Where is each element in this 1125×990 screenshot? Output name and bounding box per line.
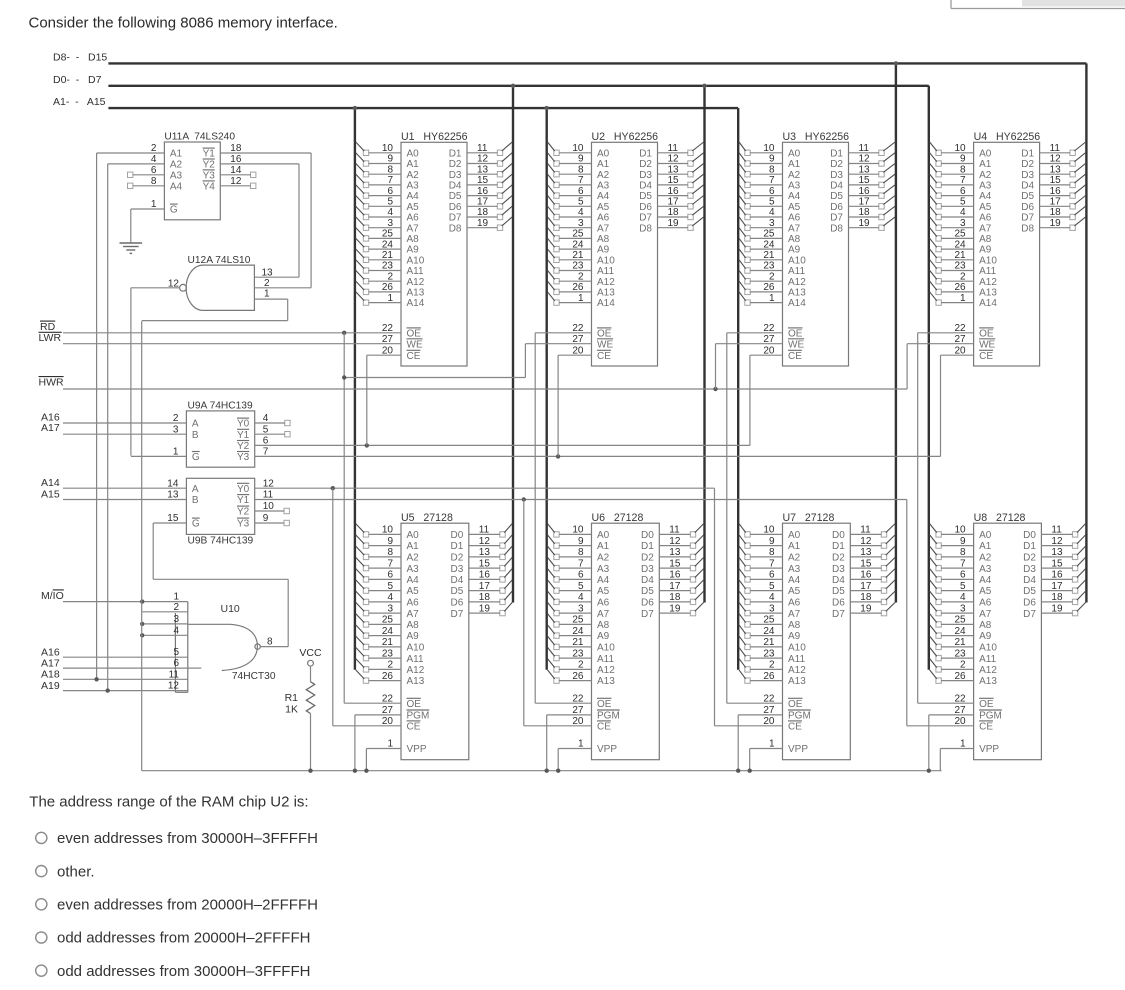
svg-text:23: 23 <box>954 261 966 272</box>
svg-text:D8: D8 <box>449 223 462 234</box>
svg-text:A: A <box>192 419 199 430</box>
svg-text:A13: A13 <box>979 676 997 687</box>
svg-text:A6: A6 <box>597 213 610 224</box>
svg-text:23: 23 <box>382 648 394 659</box>
svg-text:1: 1 <box>264 289 270 300</box>
svg-text:D3: D3 <box>1023 564 1036 575</box>
svg-text:D0- - D7: D0- - D7 <box>53 74 102 86</box>
svg-text:D4: D4 <box>641 575 654 586</box>
svg-text:19: 19 <box>1050 218 1062 229</box>
svg-text:2: 2 <box>769 660 775 671</box>
svg-text:A7: A7 <box>979 609 992 620</box>
svg-text:A12: A12 <box>788 665 806 676</box>
svg-text:26: 26 <box>763 671 775 682</box>
svg-text:D1: D1 <box>1021 148 1034 159</box>
svg-text:17: 17 <box>1050 197 1062 208</box>
svg-text:A6: A6 <box>788 598 801 609</box>
svg-text:A12: A12 <box>979 665 997 676</box>
svg-text:26: 26 <box>572 282 584 293</box>
svg-text:A7: A7 <box>788 223 801 234</box>
svg-text:16: 16 <box>669 570 681 581</box>
svg-text:A6: A6 <box>407 598 420 609</box>
svg-text:4: 4 <box>173 625 179 636</box>
svg-text:21: 21 <box>572 637 584 648</box>
svg-text:Y3: Y3 <box>237 452 250 463</box>
svg-text:A12: A12 <box>979 277 997 288</box>
svg-text:13: 13 <box>859 164 871 175</box>
svg-text:odd addresses from 30000H–3FFF: odd addresses from 30000H–3FFFFH <box>57 963 310 980</box>
svg-text:3: 3 <box>960 603 966 614</box>
svg-text:18: 18 <box>860 592 872 603</box>
svg-text:U1 HY62256: U1 HY62256 <box>401 131 468 143</box>
svg-text:13: 13 <box>1050 164 1062 175</box>
svg-text:9: 9 <box>769 154 775 165</box>
svg-text:18: 18 <box>477 207 489 218</box>
svg-text:11: 11 <box>1051 525 1062 536</box>
svg-text:A11: A11 <box>597 266 614 277</box>
svg-text:A0: A0 <box>597 148 610 159</box>
svg-text:A4: A4 <box>407 575 420 586</box>
svg-text:OE: OE <box>979 699 994 710</box>
svg-text:13: 13 <box>261 268 273 279</box>
svg-text:8: 8 <box>267 636 273 647</box>
svg-text:A4: A4 <box>170 181 183 192</box>
svg-text:D7: D7 <box>832 609 845 620</box>
svg-text:G: G <box>192 452 200 463</box>
svg-text:4: 4 <box>387 207 393 218</box>
svg-text:RD: RD <box>40 321 56 333</box>
svg-text:D3: D3 <box>639 170 652 181</box>
svg-text:18: 18 <box>669 592 681 603</box>
svg-text:15: 15 <box>668 175 680 186</box>
svg-text:D3: D3 <box>1021 170 1034 181</box>
svg-text:D7: D7 <box>830 213 843 224</box>
svg-text:23: 23 <box>954 648 966 659</box>
svg-text:24: 24 <box>763 239 775 250</box>
svg-text:U7 27128: U7 27128 <box>783 512 835 524</box>
svg-text:8: 8 <box>387 547 393 558</box>
svg-text:10: 10 <box>763 143 775 154</box>
svg-text:D1: D1 <box>830 148 843 159</box>
svg-text:25: 25 <box>763 229 775 240</box>
svg-text:18: 18 <box>479 592 491 603</box>
svg-text:other.: other. <box>57 863 95 880</box>
svg-text:A3: A3 <box>597 564 610 575</box>
svg-text:3: 3 <box>578 218 584 229</box>
svg-text:6: 6 <box>960 570 966 581</box>
svg-text:OE: OE <box>407 328 422 339</box>
svg-text:A6: A6 <box>979 598 992 609</box>
svg-text:A0: A0 <box>788 530 801 541</box>
svg-text:21: 21 <box>763 250 775 261</box>
svg-text:D0: D0 <box>1023 530 1036 541</box>
svg-text:15: 15 <box>669 558 681 569</box>
svg-text:11: 11 <box>479 525 490 536</box>
svg-text:A10: A10 <box>407 255 425 266</box>
svg-text:19: 19 <box>859 218 871 229</box>
svg-text:A14: A14 <box>788 298 806 309</box>
svg-text:D0: D0 <box>641 530 654 541</box>
svg-text:10: 10 <box>763 525 775 536</box>
svg-text:A13: A13 <box>597 676 615 687</box>
svg-text:Y2: Y2 <box>203 160 216 171</box>
svg-text:D8: D8 <box>1021 223 1034 234</box>
svg-text:CE: CE <box>788 721 802 732</box>
svg-text:A7: A7 <box>597 223 610 234</box>
svg-text:A3: A3 <box>788 564 801 575</box>
svg-text:21: 21 <box>572 250 584 261</box>
svg-text:VPP: VPP <box>788 744 808 755</box>
svg-text:A11: A11 <box>407 266 424 277</box>
svg-text:D5: D5 <box>451 586 464 597</box>
svg-text:CE: CE <box>979 721 993 732</box>
svg-text:CE: CE <box>407 721 421 732</box>
svg-text:15: 15 <box>1050 175 1062 186</box>
svg-text:3: 3 <box>387 218 393 229</box>
svg-text:U9A 74HC139: U9A 74HC139 <box>188 401 253 412</box>
svg-text:5: 5 <box>173 647 179 658</box>
svg-text:A8: A8 <box>407 234 420 245</box>
svg-text:12: 12 <box>668 154 680 165</box>
svg-text:D1: D1 <box>832 541 845 552</box>
svg-text:24: 24 <box>382 626 394 637</box>
svg-text:A8: A8 <box>407 620 420 631</box>
svg-text:25: 25 <box>954 229 966 240</box>
svg-text:D3: D3 <box>830 170 843 181</box>
svg-text:B: B <box>192 495 199 506</box>
svg-text:D5: D5 <box>1023 586 1036 597</box>
svg-text:A11: A11 <box>979 654 996 665</box>
svg-text:OE: OE <box>597 699 612 710</box>
svg-text:A2: A2 <box>407 170 420 181</box>
svg-text:VPP: VPP <box>979 744 999 755</box>
svg-text:D5: D5 <box>449 191 462 202</box>
svg-text:Y3: Y3 <box>237 519 250 530</box>
svg-text:U2 HY62256: U2 HY62256 <box>592 131 659 143</box>
svg-text:8: 8 <box>960 164 966 175</box>
svg-text:A: A <box>192 484 199 495</box>
svg-text:4: 4 <box>769 592 775 603</box>
svg-text:2: 2 <box>173 602 179 613</box>
svg-text:A14: A14 <box>979 298 997 309</box>
svg-text:25: 25 <box>382 229 394 240</box>
svg-text:A4: A4 <box>407 191 420 202</box>
svg-text:A5: A5 <box>979 202 992 213</box>
svg-text:A9: A9 <box>407 245 420 256</box>
svg-text:A1: A1 <box>788 541 801 552</box>
svg-text:16: 16 <box>1050 186 1062 197</box>
svg-text:D2: D2 <box>1023 553 1036 564</box>
svg-text:A8: A8 <box>788 620 801 631</box>
svg-text:R1: R1 <box>285 692 299 704</box>
svg-text:G: G <box>170 205 178 216</box>
svg-text:D2: D2 <box>451 553 464 564</box>
svg-text:19: 19 <box>668 218 680 229</box>
svg-text:D1: D1 <box>1023 541 1036 552</box>
svg-text:PGM: PGM <box>788 711 811 722</box>
svg-text:A3: A3 <box>788 181 801 192</box>
svg-text:A12: A12 <box>597 665 615 676</box>
svg-text:15: 15 <box>859 175 871 186</box>
svg-text:A4: A4 <box>979 191 992 202</box>
svg-text:A9: A9 <box>788 245 801 256</box>
svg-text:6: 6 <box>173 658 179 669</box>
svg-text:17: 17 <box>479 581 491 592</box>
svg-text:Consider the following 8086 me: Consider the following 8086 memory inter… <box>29 15 338 32</box>
svg-text:D3: D3 <box>641 564 654 575</box>
svg-text:A13: A13 <box>979 288 997 299</box>
svg-text:D5: D5 <box>830 191 843 202</box>
svg-text:A5: A5 <box>407 202 420 213</box>
svg-text:24: 24 <box>572 626 584 637</box>
svg-text:4: 4 <box>769 207 775 218</box>
svg-text:5: 5 <box>578 581 584 592</box>
svg-text:D6: D6 <box>1023 598 1036 609</box>
svg-text:18: 18 <box>1051 592 1063 603</box>
svg-text:A1: A1 <box>979 541 992 552</box>
svg-text:4: 4 <box>960 592 966 603</box>
svg-text:A2: A2 <box>788 170 801 181</box>
svg-text:21: 21 <box>954 637 966 648</box>
svg-text:A2: A2 <box>788 553 801 564</box>
svg-text:A3: A3 <box>407 564 420 575</box>
svg-text:11: 11 <box>477 143 488 154</box>
svg-text:8: 8 <box>387 164 393 175</box>
svg-text:9: 9 <box>578 536 584 547</box>
svg-text:24: 24 <box>954 626 966 637</box>
svg-text:16: 16 <box>477 186 489 197</box>
svg-text:VPP: VPP <box>407 744 427 755</box>
svg-text:25: 25 <box>572 229 584 240</box>
svg-text:6: 6 <box>769 186 775 197</box>
svg-text:A7: A7 <box>407 609 420 620</box>
svg-text:2: 2 <box>578 660 584 671</box>
svg-text:D8: D8 <box>639 223 652 234</box>
svg-text:A17: A17 <box>41 422 60 434</box>
svg-text:D7: D7 <box>1021 213 1034 224</box>
svg-text:3: 3 <box>769 218 775 229</box>
svg-text:11: 11 <box>669 525 680 536</box>
svg-text:A1: A1 <box>788 159 801 170</box>
svg-text:3: 3 <box>173 614 179 625</box>
svg-text:OE: OE <box>788 699 803 710</box>
svg-text:A9: A9 <box>979 245 992 256</box>
svg-text:4: 4 <box>960 207 966 218</box>
svg-text:A3: A3 <box>597 181 610 192</box>
svg-text:A1- - A15: A1- - A15 <box>53 96 106 108</box>
svg-text:A8: A8 <box>597 234 610 245</box>
svg-text:10: 10 <box>572 525 584 536</box>
svg-text:D5: D5 <box>639 191 652 202</box>
svg-text:A6: A6 <box>788 213 801 224</box>
svg-text:odd addresses from 20000H–2FFF: odd addresses from 20000H–2FFFFH <box>57 930 310 947</box>
svg-text:OE: OE <box>407 699 422 710</box>
svg-text:3: 3 <box>769 603 775 614</box>
svg-text:8: 8 <box>578 547 584 558</box>
svg-text:23: 23 <box>382 261 394 272</box>
svg-text:8: 8 <box>960 547 966 558</box>
svg-text:CE: CE <box>407 351 421 362</box>
svg-text:10: 10 <box>954 143 966 154</box>
svg-text:6: 6 <box>387 186 393 197</box>
svg-text:1: 1 <box>769 293 775 304</box>
svg-text:A1: A1 <box>597 541 610 552</box>
svg-text:A0: A0 <box>407 530 420 541</box>
svg-text:6: 6 <box>960 186 966 197</box>
svg-text:A5: A5 <box>597 202 610 213</box>
svg-text:17: 17 <box>859 197 871 208</box>
svg-text:D2: D2 <box>832 553 845 564</box>
svg-text:25: 25 <box>572 615 584 626</box>
svg-text:A1: A1 <box>407 541 420 552</box>
svg-text:D6: D6 <box>1021 202 1034 213</box>
svg-text:24: 24 <box>382 239 394 250</box>
svg-text:A8: A8 <box>979 620 992 631</box>
svg-text:15: 15 <box>860 558 872 569</box>
svg-text:10: 10 <box>382 143 394 154</box>
svg-text:A7: A7 <box>788 609 801 620</box>
svg-text:M/IO: M/IO <box>41 590 64 602</box>
svg-text:VCC: VCC <box>299 647 322 659</box>
svg-text:10: 10 <box>382 525 394 536</box>
svg-text:D6: D6 <box>639 202 652 213</box>
svg-text:10: 10 <box>954 525 966 536</box>
svg-text:13: 13 <box>668 164 680 175</box>
svg-text:A13: A13 <box>407 676 425 687</box>
svg-text:CE: CE <box>597 351 611 362</box>
svg-text:D7: D7 <box>1023 609 1036 620</box>
svg-text:U6 27128: U6 27128 <box>592 512 644 524</box>
svg-text:6: 6 <box>578 570 584 581</box>
svg-text:7: 7 <box>769 175 775 186</box>
svg-text:7: 7 <box>578 175 584 186</box>
svg-text:D4: D4 <box>639 181 652 192</box>
svg-text:25: 25 <box>763 615 775 626</box>
svg-text:Y3: Y3 <box>203 170 216 181</box>
svg-text:Y1: Y1 <box>237 495 250 506</box>
svg-text:2: 2 <box>387 660 393 671</box>
svg-text:A10: A10 <box>788 643 806 654</box>
svg-text:OE: OE <box>597 328 612 339</box>
svg-text:A13: A13 <box>788 676 806 687</box>
svg-text:12: 12 <box>168 681 180 692</box>
svg-text:A5: A5 <box>597 586 610 597</box>
svg-text:OE: OE <box>788 328 803 339</box>
svg-text:CE: CE <box>788 351 802 362</box>
svg-text:13: 13 <box>477 164 489 175</box>
svg-text:19: 19 <box>669 603 681 614</box>
svg-text:A11: A11 <box>597 654 614 665</box>
svg-text:13: 13 <box>860 547 872 558</box>
svg-text:18: 18 <box>1050 207 1062 218</box>
svg-text:5: 5 <box>960 197 966 208</box>
svg-text:D7: D7 <box>449 213 462 224</box>
svg-text:D5: D5 <box>641 586 654 597</box>
svg-text:A7: A7 <box>979 223 992 234</box>
svg-text:A4: A4 <box>788 575 801 586</box>
svg-text:8: 8 <box>769 547 775 558</box>
svg-text:11: 11 <box>859 143 870 154</box>
svg-text:17: 17 <box>668 197 680 208</box>
svg-text:17: 17 <box>1051 581 1063 592</box>
svg-text:12: 12 <box>859 154 871 165</box>
svg-text:15: 15 <box>1051 558 1063 569</box>
svg-text:9: 9 <box>387 154 393 165</box>
svg-text:D2: D2 <box>639 159 652 170</box>
svg-text:A10: A10 <box>979 255 997 266</box>
svg-text:24: 24 <box>763 626 775 637</box>
svg-text:8: 8 <box>769 164 775 175</box>
svg-text:CE: CE <box>597 721 611 732</box>
svg-text:A0: A0 <box>407 148 420 159</box>
svg-text:WE: WE <box>788 339 804 350</box>
svg-text:A13: A13 <box>407 288 425 299</box>
svg-text:B: B <box>192 430 199 441</box>
svg-text:8: 8 <box>578 164 584 175</box>
svg-text:D6: D6 <box>830 202 843 213</box>
svg-text:25: 25 <box>954 615 966 626</box>
svg-text:12: 12 <box>168 279 180 290</box>
svg-text:A3: A3 <box>170 170 183 181</box>
svg-text:D4: D4 <box>451 575 464 586</box>
svg-text:A4: A4 <box>979 575 992 586</box>
svg-text:25: 25 <box>382 615 394 626</box>
svg-text:OE: OE <box>979 328 994 339</box>
svg-text:D4: D4 <box>1023 575 1036 586</box>
svg-text:A2: A2 <box>170 160 183 171</box>
svg-text:A11: A11 <box>788 266 805 277</box>
svg-text:15: 15 <box>477 175 489 186</box>
svg-text:19: 19 <box>477 218 489 229</box>
svg-text:7: 7 <box>578 558 584 569</box>
svg-text:A18: A18 <box>41 669 60 681</box>
svg-text:WE: WE <box>979 339 995 350</box>
svg-text:16: 16 <box>668 186 680 197</box>
svg-text:5: 5 <box>387 581 393 592</box>
svg-text:A5: A5 <box>979 586 992 597</box>
svg-text:23: 23 <box>572 261 584 272</box>
svg-text:9: 9 <box>960 154 966 165</box>
svg-text:A8: A8 <box>788 234 801 245</box>
svg-text:D0: D0 <box>832 530 845 541</box>
svg-text:VPP: VPP <box>597 744 617 755</box>
svg-text:11: 11 <box>169 669 180 680</box>
svg-text:11: 11 <box>1050 143 1061 154</box>
svg-text:U11A 74LS240: U11A 74LS240 <box>164 132 235 143</box>
svg-text:9: 9 <box>960 536 966 547</box>
svg-text:2: 2 <box>578 271 584 282</box>
svg-text:Y0: Y0 <box>237 419 250 430</box>
svg-text:A1: A1 <box>170 149 183 160</box>
svg-text:13: 13 <box>479 547 491 558</box>
svg-text:Y0: Y0 <box>237 484 250 495</box>
svg-text:A6: A6 <box>979 213 992 224</box>
svg-text:5: 5 <box>387 197 393 208</box>
svg-text:6: 6 <box>578 186 584 197</box>
svg-text:21: 21 <box>954 250 966 261</box>
svg-text:D6: D6 <box>832 598 845 609</box>
svg-text:A8: A8 <box>979 234 992 245</box>
svg-text:HWR: HWR <box>39 377 64 389</box>
svg-text:Y1: Y1 <box>203 149 216 160</box>
svg-text:U10: U10 <box>221 603 240 615</box>
svg-text:A5: A5 <box>788 586 801 597</box>
svg-text:A2: A2 <box>979 170 992 181</box>
svg-text:A7: A7 <box>597 609 610 620</box>
svg-text:A8: A8 <box>597 620 610 631</box>
svg-text:1: 1 <box>387 293 393 304</box>
svg-text:A12: A12 <box>407 665 425 676</box>
